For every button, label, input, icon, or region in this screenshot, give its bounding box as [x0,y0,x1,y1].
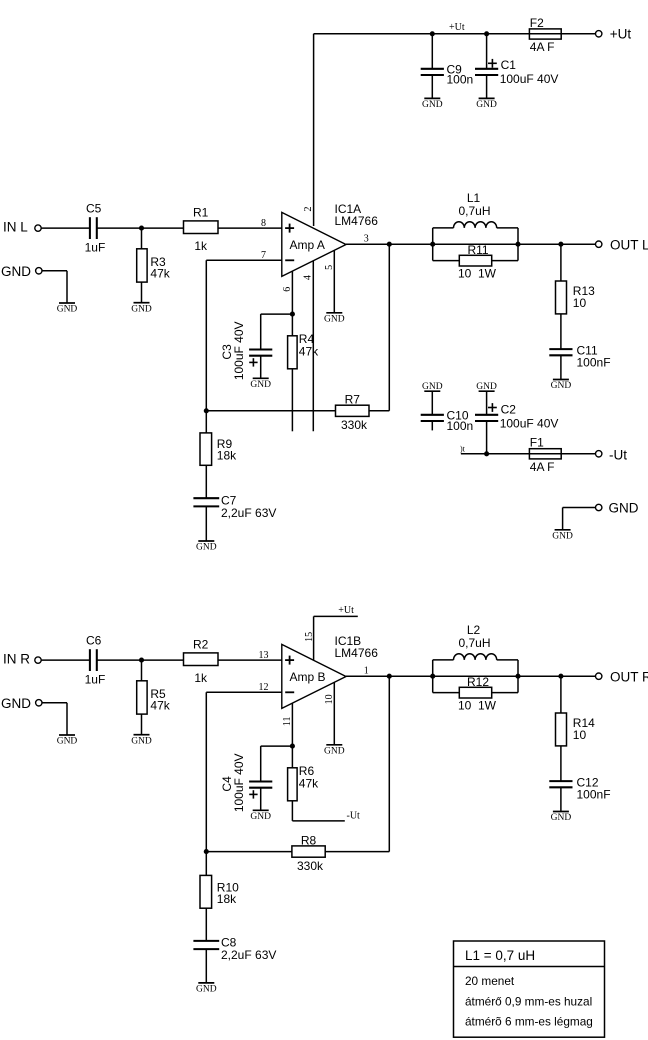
svg-text:C5: C5 [86,201,102,215]
svg-text:OUT R: OUT R [610,670,648,685]
svg-text:L1: L1 [467,191,481,205]
svg-text:GND: GND [131,736,152,746]
svg-text:C6: C6 [86,633,102,647]
svg-text:GND: GND [196,985,217,995]
svg-text:2,2uF 63V: 2,2uF 63V [221,948,276,962]
svg-text:3: 3 [364,234,369,245]
svg-text:GND: GND [324,314,345,324]
svg-text:R2: R2 [193,637,209,651]
svg-text:GND: GND [551,813,572,823]
svg-text:4: 4 [302,275,313,280]
svg-text:átmérő 0,9 mm-es huzal: átmérő 0,9 mm-es huzal [465,994,592,1008]
svg-text:L2: L2 [467,623,481,637]
svg-text:100n: 100n [447,73,474,87]
svg-text:+Ut: +Ut [449,22,465,33]
svg-text:18k: 18k [217,892,237,906]
svg-text:13: 13 [259,650,269,661]
svg-text:2: 2 [303,207,314,212]
svg-text:Amp B: Amp B [290,670,326,684]
svg-text:LM4766: LM4766 [335,214,379,228]
svg-text:1uF: 1uF [85,240,106,254]
svg-text:100uF 40V: 100uF 40V [232,753,246,812]
svg-text:6: 6 [282,287,293,292]
svg-text:)t: )t [460,444,466,453]
svg-text:47k: 47k [299,345,319,359]
svg-text:1k: 1k [194,671,208,685]
svg-text:-Ut: -Ut [609,447,627,462]
svg-text:100uF 40V: 100uF 40V [232,321,246,380]
svg-text:GND: GND [1,264,31,279]
svg-text:-Ut: -Ut [347,810,361,821]
svg-text:GND: GND [131,304,152,314]
svg-text:10: 10 [573,728,587,742]
svg-text:GND: GND [250,380,271,390]
svg-text:100uF 40V: 100uF 40V [500,72,559,86]
svg-text:4A F: 4A F [530,40,555,54]
svg-text:Amp A: Amp A [290,238,325,252]
svg-text:GND: GND [57,305,78,315]
svg-text:+Ut: +Ut [610,27,632,42]
svg-text:átmérõ 6 mm-es légmag: átmérõ 6 mm-es légmag [465,1014,593,1028]
svg-text:7: 7 [261,250,266,261]
svg-text:GND: GND [476,382,497,392]
svg-text:L1 = 0,7 uH: L1 = 0,7 uH [465,948,535,963]
svg-text:11: 11 [282,716,293,726]
svg-text:F1: F1 [530,436,544,450]
svg-text:R12: R12 [467,675,489,689]
svg-text:12: 12 [259,682,269,693]
svg-text:330k: 330k [341,418,368,432]
svg-text:1: 1 [364,666,369,677]
svg-text:R11: R11 [467,243,488,257]
svg-text:10: 10 [324,694,335,704]
svg-text:OUT L: OUT L [610,238,648,253]
svg-text:0,7uH: 0,7uH [458,636,490,650]
svg-text:GND: GND [324,746,345,756]
svg-text:15: 15 [304,632,315,642]
svg-text:GND: GND [422,382,443,392]
svg-text:4A F: 4A F [530,460,555,474]
svg-text:R7: R7 [345,393,361,407]
svg-text:47k: 47k [150,699,170,713]
svg-text:18k: 18k [217,448,237,462]
svg-text:100uF 40V: 100uF 40V [500,416,559,430]
svg-text:8: 8 [261,218,266,229]
svg-text:GND: GND [476,100,497,110]
svg-text:GND: GND [57,737,78,747]
svg-text:2,2uF 63V: 2,2uF 63V [221,506,276,520]
svg-text:1k: 1k [194,239,208,253]
svg-text:R8: R8 [301,833,317,847]
svg-text:GND: GND [422,100,443,110]
svg-text:GND: GND [609,500,639,515]
svg-text:330k: 330k [297,859,324,873]
svg-text:F2: F2 [530,16,544,30]
svg-text:0,7uH: 0,7uH [458,204,490,218]
svg-text:5: 5 [324,265,335,270]
svg-text:R1: R1 [193,205,209,219]
svg-text:+Ut: +Ut [338,605,354,616]
svg-text:1uF: 1uF [85,672,106,686]
svg-text:IN R: IN R [3,652,30,667]
svg-text:GND: GND [250,812,271,822]
svg-text:100nF: 100nF [577,356,611,370]
svg-text:20 menet: 20 menet [465,974,515,988]
svg-text:IN L: IN L [3,220,28,235]
svg-text:GND: GND [196,543,217,553]
svg-text:C2: C2 [501,403,517,417]
svg-text:100nF: 100nF [577,788,611,802]
svg-text:47k: 47k [150,267,170,281]
svg-text:100n: 100n [447,419,474,433]
svg-text:47k: 47k [299,777,319,791]
svg-text:10 1W: 10 1W [458,698,497,712]
svg-text:GND: GND [1,696,31,711]
svg-text:C1: C1 [501,58,517,72]
svg-text:GND: GND [552,531,573,541]
svg-text:10 1W: 10 1W [458,266,497,280]
svg-text:LM4766: LM4766 [335,646,379,660]
svg-text:GND: GND [551,381,572,391]
svg-text:10: 10 [573,296,587,310]
